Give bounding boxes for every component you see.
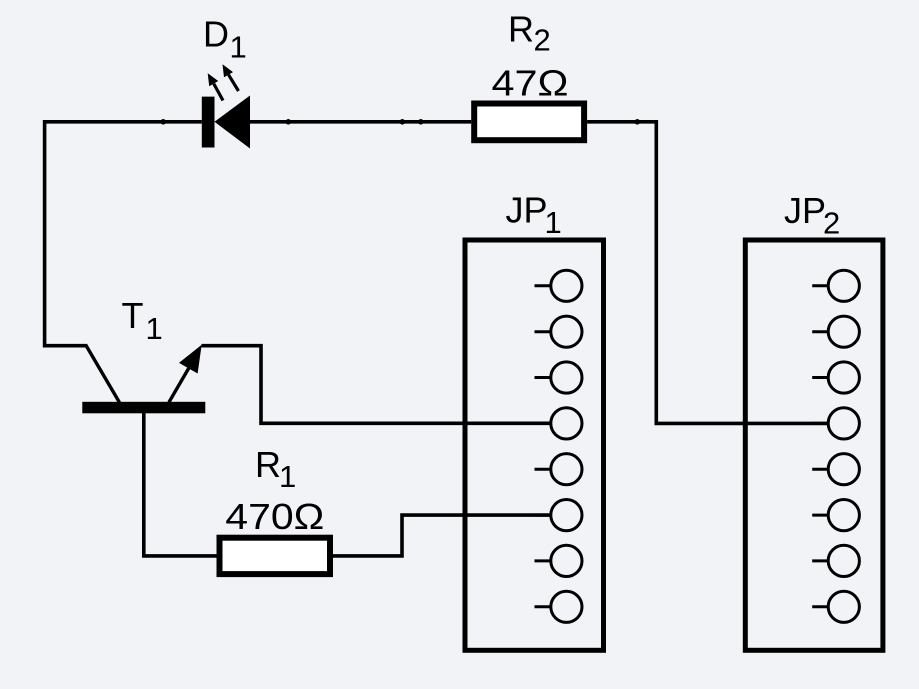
label D1 <box>203 14 247 65</box>
junction on net1 <box>160 119 166 125</box>
svg-text:T: T <box>122 295 144 336</box>
wire net1: LED cathode to transistor collector <box>45 122 202 346</box>
label R2 <box>508 9 551 58</box>
svg-text:2: 2 <box>534 23 551 58</box>
LED D1 <box>202 64 250 148</box>
svg-text:1: 1 <box>146 311 163 346</box>
JP1 pin 3 <box>535 362 583 393</box>
svg-text:1: 1 <box>545 205 562 240</box>
wire net4: T1 emitter to JP1 pin 4 <box>202 346 551 424</box>
junction on net2 b <box>400 119 406 125</box>
label T1 <box>122 295 163 346</box>
svg-text:1: 1 <box>230 29 247 64</box>
wire net5: T1 base to resistor R1 <box>144 412 217 556</box>
label JP2 <box>784 190 840 240</box>
transistor T1 <box>82 345 205 414</box>
svg-text:47Ω: 47Ω <box>492 62 569 103</box>
JP1 pin 5 <box>535 454 583 485</box>
JP2 pin 4 <box>812 408 859 439</box>
wire net2: LED anode to resistor R2 <box>250 120 471 124</box>
junction on net2 c <box>418 119 424 125</box>
svg-text:1: 1 <box>279 459 296 494</box>
JP2 pin 3 <box>812 362 859 393</box>
JP1 pin 8 <box>535 591 583 622</box>
svg-text:2: 2 <box>823 205 840 240</box>
resistor R1 <box>220 538 331 574</box>
label R1 <box>255 444 296 494</box>
svg-text:R: R <box>508 9 534 50</box>
wire net6: R1 right to JP1 pin 6 <box>333 515 551 556</box>
junction on net2 <box>286 119 292 125</box>
connector JP1 box <box>465 240 604 650</box>
JP1 pin 1 <box>535 270 583 301</box>
JP2 pin 1 <box>812 270 859 301</box>
svg-text:D: D <box>203 14 229 55</box>
wire net3: R2 right to JP2 pin 4 <box>587 122 828 424</box>
svg-text:JP: JP <box>784 190 826 231</box>
label JP1 <box>506 190 562 240</box>
JP2 pin 7 <box>812 545 859 576</box>
JP1 pin 4 <box>535 408 583 439</box>
JP2 pin 5 <box>812 454 859 485</box>
svg-text:R: R <box>255 444 281 485</box>
JP2 pin 2 <box>812 316 859 347</box>
JP1 pin 6 <box>535 499 583 530</box>
JP1 pin 2 <box>535 316 583 347</box>
resistor R2 <box>474 104 584 141</box>
svg-text:470Ω: 470Ω <box>225 496 324 537</box>
value 47ohm <box>492 62 569 103</box>
value 470ohm <box>225 496 324 537</box>
connector JP2 box <box>745 240 883 650</box>
junction on net3 <box>635 119 641 125</box>
svg-text:JP: JP <box>506 190 548 231</box>
JP2 pin 8 <box>812 591 859 622</box>
JP2 pin 6 <box>812 499 859 530</box>
JP1 pin 7 <box>535 545 583 576</box>
